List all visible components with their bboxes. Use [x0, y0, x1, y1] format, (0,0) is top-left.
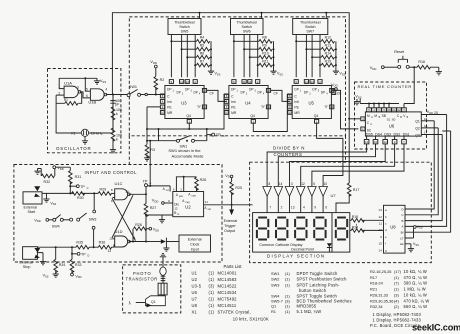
- svg-text:B: B: [174, 211, 176, 215]
- svg-text:R14: R14: [325, 52, 331, 56]
- svg-text:7: 7: [269, 206, 271, 210]
- pin 4 U6 left: [361, 117, 365, 121]
- svg-text:BI: BI: [401, 231, 404, 235]
- thumbwheel switch SW7: [293, 19, 328, 35]
- svg-text:SW2: SW2: [271, 277, 279, 282]
- pin 1 U6 left: [361, 127, 365, 131]
- svg-text:(1): (1): [394, 287, 399, 292]
- svg-text:TP: TP: [216, 133, 221, 137]
- svg-text:R9: R9: [262, 44, 267, 48]
- resistor R16: [417, 65, 430, 69]
- svg-text:(1): (1): [285, 282, 290, 287]
- svg-text:R36: R36: [99, 240, 106, 244]
- resistor 100 k upper: [111, 107, 115, 120]
- svg-text:(3): (3): [394, 292, 399, 297]
- svg-text:11: 11: [180, 80, 183, 84]
- dashed box OSCILLATOR section: [48, 69, 121, 153]
- ground stop box: [37, 253, 43, 259]
- ground VSS start: [46, 193, 48, 196]
- wire SW5 output 2: [181, 35, 183, 78]
- svg-text:TP: TP: [80, 185, 85, 189]
- svg-text:Q1: Q1: [151, 300, 156, 304]
- svg-text:5.1 MΩ, ¼W: 5.1 MΩ, ¼W: [297, 309, 322, 314]
- wire SW6 output 4: [257, 35, 259, 78]
- svg-text:DP: DP: [258, 90, 262, 94]
- svg-text:16: 16: [332, 91, 336, 95]
- svg-text:D: D: [87, 254, 89, 258]
- resistor R8: [234, 40, 259, 42]
- wire Q3 to U8 input: [405, 135, 442, 221]
- wire stop line: [37, 246, 114, 248]
- svg-text:11: 11: [305, 80, 308, 84]
- svg-text:SPST Pushbutton Switch: SPST Pushbutton Switch: [297, 277, 348, 282]
- pin 11 U4: [242, 80, 246, 84]
- test point TPA: [145, 187, 147, 195]
- wire to SW3 top throw: [93, 193, 95, 210]
- wire driver 5 to display: [311, 196, 313, 212]
- svg-text:MR: MR: [294, 111, 300, 115]
- wire cross coupling latch: [112, 195, 136, 240]
- pin 13 CF U5: [330, 89, 334, 93]
- wire driver 3 to display: [289, 196, 291, 212]
- svg-text:R2: R2: [160, 78, 165, 82]
- pin 13 CF U4: [266, 89, 270, 93]
- svg-text:2: 2: [281, 206, 283, 210]
- test point TPB: [207, 134, 212, 136]
- svg-text:(1): (1): [209, 303, 215, 308]
- svg-text:PE: PE: [294, 105, 299, 109]
- resistor R15: [320, 64, 321, 66]
- test point TPC: [70, 185, 76, 187]
- svg-text:(1): (1): [285, 271, 290, 276]
- svg-text:Switch: Switch: [179, 25, 190, 29]
- svg-text:"0": "0": [324, 105, 328, 109]
- svg-text:SW4: SW4: [52, 225, 60, 229]
- svg-text:Decimal Point: Decimal Point: [291, 248, 314, 252]
- svg-text:Trigger: Trigger: [224, 224, 236, 228]
- wire driver 2 to display: [277, 196, 279, 212]
- wire feedback loop: [56, 92, 82, 103]
- dashed box PHOTO TRANSISTOR: [123, 265, 181, 313]
- svg-text:Output: Output: [224, 229, 235, 233]
- svg-text:Inh: Inh: [294, 100, 299, 104]
- dashed box REAL TIME COUNTER: [355, 82, 427, 149]
- external clock input box: [166, 241, 179, 243]
- svg-text:12: 12: [174, 206, 178, 210]
- svg-text:DS4: DS4: [375, 132, 382, 136]
- ground: [110, 147, 116, 153]
- svg-text:U6: U6: [192, 290, 198, 295]
- op-amp gate U1A nor: [64, 86, 78, 98]
- svg-text:(1): (1): [209, 271, 215, 276]
- svg-text:13: 13: [107, 249, 111, 253]
- svg-text:10: 10: [374, 140, 378, 144]
- ground VSS ladder: [270, 69, 276, 75]
- ground R34 VSS: [53, 271, 59, 277]
- pin 22 U6 top: [397, 108, 402, 112]
- svg-text:R29: R29: [100, 188, 107, 192]
- wire SW5 output 3: [186, 35, 188, 78]
- svg-text:R31: R31: [75, 175, 82, 179]
- wire Q1 output U6: [421, 120, 434, 122]
- wire digit drive DS1: [312, 144, 404, 181]
- svg-text:Input: Input: [191, 248, 199, 252]
- pin 14 U3: [185, 80, 189, 84]
- svg-text:R21: R21: [370, 287, 377, 292]
- svg-text:14: 14: [248, 80, 252, 84]
- resistor R3 to ground: [146, 141, 148, 145]
- svg-text:12: 12: [379, 215, 383, 219]
- arrow external clock input: [161, 239, 166, 244]
- svg-text:DPDT Toggle Switch: DPDT Toggle Switch: [297, 271, 339, 276]
- wire SW7 output 4: [319, 35, 321, 78]
- svg-text:R3: R3: [150, 148, 155, 152]
- resistor R29: [98, 192, 111, 196]
- digit 5 segments: [336, 218, 347, 240]
- pin 11 U5: [304, 80, 308, 84]
- svg-text:DP: DP: [312, 88, 316, 92]
- pin 7 U6 bottom: [403, 136, 405, 139]
- wire digit drive DS2: [301, 144, 395, 181]
- switch SW1 pole A: [127, 94, 130, 97]
- svg-text:DIVIDE BY N: DIVIDE BY N: [273, 146, 305, 151]
- svg-text:SW1: SW1: [180, 145, 188, 149]
- svg-text:Stop: Stop: [23, 265, 31, 269]
- ground VSS ladder: [333, 69, 339, 75]
- svg-text:R25: R25: [235, 186, 242, 190]
- switch SW4: [53, 218, 56, 221]
- wire VDD pin 20 U6: [421, 114, 446, 116]
- svg-text:U5: U5: [309, 101, 315, 106]
- ground above photo transistor: [160, 254, 166, 268]
- svg-text:Inh: Inh: [167, 100, 172, 104]
- wire U3 Q4 to U4 clock: [189, 94, 229, 129]
- wire TPA node to counters riser and U2 A load: [147, 186, 170, 192]
- svg-text:R17: R17: [353, 188, 360, 192]
- svg-text:10: 10: [161, 111, 165, 115]
- power VDD pin 16 U5: [331, 88, 334, 90]
- svg-text:(1): (1): [394, 275, 399, 280]
- svg-text:Q4: Q4: [250, 114, 255, 118]
- svg-text:4: 4: [303, 206, 305, 210]
- svg-text:10: 10: [324, 182, 328, 186]
- pin 5 U4: [232, 80, 236, 84]
- wire: [112, 117, 114, 128]
- svg-text:PE: PE: [231, 105, 236, 109]
- resistor R34: [55, 247, 57, 259]
- test point TPD: [71, 253, 73, 255]
- svg-text:SW1: SW1: [129, 85, 137, 89]
- svg-text:R6: R6: [200, 52, 205, 56]
- svg-text:X1: X1: [192, 310, 198, 315]
- resistor R1 feedback: [65, 102, 78, 106]
- svg-text:Thumbwheel: Thumbwheel: [236, 20, 257, 24]
- svg-text:TRANSISTOR: TRANSISTOR: [126, 276, 158, 281]
- wire SW5 output 1: [170, 35, 172, 78]
- decoder IC U8 MC14511: [384, 205, 406, 253]
- wire digit drive DS3: [290, 144, 386, 181]
- svg-text:PE: PE: [167, 105, 172, 109]
- svg-text:Inh: Inh: [231, 100, 236, 104]
- pin 2 U4: [256, 80, 260, 84]
- buffer U7 driver 6: [319, 187, 328, 197]
- svg-text:12: 12: [203, 105, 207, 109]
- svg-text:6: 6: [325, 206, 327, 210]
- wire lambda input: [136, 302, 146, 304]
- buffer U7 driver 2: [274, 187, 283, 197]
- svg-text:Reset: Reset: [394, 50, 405, 54]
- svg-text:(7): (7): [394, 281, 399, 286]
- pin 13 CF U3: [202, 89, 206, 93]
- svg-text:R32,34: R32,34: [370, 304, 383, 309]
- wire external clock line: [146, 241, 161, 243]
- wire SW6 output 2: [243, 35, 245, 78]
- svg-text:REAL TIME COUNTER: REAL TIME COUNTER: [358, 84, 413, 89]
- svg-text:R8: R8: [262, 36, 267, 40]
- ground external clock: [163, 245, 169, 251]
- resistor R25: [230, 182, 234, 195]
- wire U5 Q4 down to display feed: [317, 124, 343, 163]
- pin 4 U6 top: [373, 103, 375, 105]
- power VDD U8: [405, 228, 414, 238]
- wire driver 4 to display: [300, 196, 302, 212]
- svg-text:External: External: [19, 260, 33, 264]
- svg-text:TP: TP: [81, 252, 86, 256]
- wire U2 top pins to R26: [176, 177, 196, 192]
- svg-text:"0": "0": [197, 105, 201, 109]
- pin 5 U3: [169, 80, 173, 84]
- svg-text:8: 8: [269, 182, 271, 186]
- external start input box: [23, 192, 42, 204]
- wire latch output down to clock line: [145, 215, 147, 242]
- svg-text:R30: R30: [77, 196, 84, 200]
- resistor R28 to VDD: [132, 229, 134, 242]
- pin 2 U3: [193, 80, 197, 84]
- wire driver 1 to display: [266, 196, 268, 212]
- svg-text:DP: DP: [294, 88, 298, 92]
- svg-text:DP: DP: [249, 88, 253, 92]
- wire U1A input stub: [56, 94, 64, 96]
- svg-text:DP: DP: [177, 90, 181, 94]
- pin 12 zero output U3: [202, 105, 206, 109]
- svg-text:17: 17: [424, 131, 428, 135]
- timer IC U2 MC14583: [173, 192, 204, 217]
- svg-text:Q2: Q2: [415, 127, 420, 131]
- svg-text:C: C: [87, 186, 89, 190]
- resistor R6: [187, 56, 196, 58]
- op-amp gate U1D nand: [115, 236, 128, 247]
- svg-text:MC14583: MC14583: [218, 277, 238, 282]
- wire U1B pin5 to VSS rail: [85, 78, 90, 91]
- svg-text:10: 10: [125, 190, 129, 194]
- wire drop to SW6 common: [261, 13, 263, 19]
- op-amp gate U1B nor: [90, 89, 104, 101]
- resistor R32: [41, 174, 54, 178]
- wire VDD20 rail down: [405, 115, 447, 227]
- crystal X1: [81, 129, 88, 136]
- svg-text:R33: R33: [75, 263, 82, 267]
- pin 26 U6 top: [388, 103, 390, 105]
- svg-text:R29,30,35,36: R29,30,35,36: [370, 298, 393, 303]
- wire SW2 reset to U6: [404, 67, 414, 108]
- resistor R26: [195, 177, 199, 190]
- digit 1 segments: [257, 218, 268, 240]
- svg-text:18: 18: [424, 124, 428, 128]
- resistor R30: [72, 192, 85, 196]
- svg-text:10 kΩ, ¼ W: 10 kΩ, ¼ W: [404, 292, 428, 297]
- wire SW1 pole B line: [147, 129, 207, 141]
- svg-text:14: 14: [379, 248, 383, 252]
- svg-text:11: 11: [379, 222, 382, 226]
- svg-text:out: out: [208, 208, 212, 211]
- left pin numbers U3: [160, 94, 164, 98]
- svg-text:S1: S1: [387, 118, 391, 122]
- diode stop input arrow: [34, 248, 40, 253]
- svg-text:R12: R12: [325, 36, 331, 40]
- wire to ground: [112, 138, 114, 147]
- svg-text:SW5: SW5: [181, 29, 189, 33]
- pin 5 U5: [294, 80, 298, 84]
- svg-text:(1): (1): [209, 297, 215, 302]
- buffer U7 driver 1: [263, 187, 272, 197]
- counter IC U5 MC14522: [292, 86, 331, 119]
- wire SW4 to SW3: [63, 219, 69, 221]
- svg-text:DS5: DS5: [366, 132, 373, 136]
- svg-text:Common Cathode Display: Common Cathode Display: [259, 243, 302, 247]
- external stop input box: [23, 247, 38, 260]
- ground VSS tie: [94, 78, 100, 84]
- pin 2 U5: [318, 80, 322, 84]
- svg-text:R18: R18: [352, 215, 358, 219]
- svg-text:OSCILLATOR: OSCILLATOR: [56, 146, 91, 151]
- svg-text:DS3: DS3: [384, 132, 391, 136]
- svg-text:SW1: SW1: [271, 271, 279, 276]
- svg-text:R16: R16: [418, 60, 425, 64]
- svg-text:DP: DP: [321, 90, 325, 94]
- svg-text:R5: R5: [200, 44, 205, 48]
- svg-text:(17): (17): [394, 269, 402, 274]
- svg-text:U7: U7: [331, 193, 337, 198]
- resistor R31: [69, 171, 73, 184]
- wire VSS tie rail: [59, 78, 97, 88]
- photo transistor barrel: [158, 283, 167, 295]
- pin 14 U6 bottom: [384, 136, 386, 139]
- wire R16 to ground: [430, 67, 439, 69]
- digit 2 segments: [276, 218, 287, 240]
- svg-text:U7: U7: [192, 297, 198, 302]
- svg-text:Thumbwheel: Thumbwheel: [300, 20, 321, 24]
- svg-text:U2: U2: [185, 204, 191, 209]
- svg-text:Clock: Clock: [190, 243, 199, 247]
- svg-text:470 Ω, ¼ W: 470 Ω, ¼ W: [404, 275, 428, 280]
- svg-text:R18-24: R18-24: [370, 281, 384, 286]
- svg-text:MR: MR: [231, 111, 237, 115]
- pin 3 U6 top: [402, 108, 407, 112]
- svg-text:U8: U8: [192, 303, 198, 308]
- pin 11 U6 bottom: [366, 136, 368, 139]
- resistor R2: [154, 77, 158, 90]
- svg-text:10 kΩ, ¼ W: 10 kΩ, ¼ W: [404, 269, 428, 274]
- svg-text:(1): (1): [209, 310, 215, 315]
- switch SW1 pole B: [177, 139, 180, 142]
- transistor Q1: [162, 294, 164, 297]
- buffer U7 driver 4: [296, 187, 305, 197]
- thumbwheel switch SW6: [231, 19, 264, 35]
- resistor R33: [71, 247, 73, 259]
- svg-text:External: External: [24, 205, 38, 209]
- resistor 100 k lower: [111, 128, 115, 141]
- pin 6 U6 top: [378, 103, 380, 105]
- svg-text:U1: U1: [192, 271, 198, 276]
- svg-text:13: 13: [267, 89, 271, 93]
- svg-text:U4: U4: [245, 101, 251, 106]
- op-amp gate U1C nand: [115, 189, 128, 200]
- svg-text:LT: LT: [400, 236, 403, 240]
- svg-text:U8: U8: [390, 225, 396, 230]
- resistor R12: [296, 40, 321, 42]
- svg-text:TP: TP: [143, 180, 148, 184]
- counter IC U3 MC14522: [165, 86, 204, 119]
- svg-text:(1): (1): [285, 277, 290, 282]
- svg-text:16: 16: [424, 117, 428, 121]
- resistor R7: [195, 64, 196, 66]
- wire SW7 output 2: [305, 35, 307, 78]
- display common cathode 5 digit: [253, 213, 350, 253]
- svg-text:k: k: [116, 137, 118, 141]
- resistor R24: [350, 229, 352, 231]
- svg-text:3: 3: [77, 86, 79, 90]
- wire cascade junction vertical: [158, 129, 160, 141]
- thumbwheel switch SW5: [168, 19, 201, 35]
- wire latch output rising to counters: [149, 141, 151, 186]
- svg-text:Q4: Q4: [186, 114, 191, 118]
- resistor R4: [171, 40, 196, 42]
- svg-text:390 Ω, ¼ W: 390 Ω, ¼ W: [404, 281, 428, 286]
- resistor R18: [350, 219, 352, 221]
- wire ladder rail SW6: [273, 41, 275, 68]
- resistor R35: [76, 245, 89, 249]
- svg-text:13: 13: [291, 206, 295, 210]
- svg-text:k: k: [116, 112, 118, 116]
- svg-text:10 kHz, SX1H10K: 10 kHz, SX1H10K: [233, 316, 269, 321]
- svg-text:14: 14: [186, 80, 190, 84]
- svg-text:DS1: DS1: [403, 132, 410, 136]
- svg-text:R34: R34: [59, 263, 66, 267]
- svg-text:DP: DP: [194, 90, 198, 94]
- svg-text:(1): (1): [209, 277, 215, 282]
- wire drop to SW7 common: [325, 13, 327, 19]
- svg-text:R24: R24: [352, 225, 358, 229]
- svg-text:MC14522: MC14522: [218, 284, 238, 289]
- svg-text:(1): (1): [209, 290, 215, 295]
- wire U1A output to U1B input: [80, 92, 91, 98]
- svg-text:(4): (4): [394, 298, 399, 303]
- svg-text:560 Ω, ¼ W: 560 Ω, ¼ W: [404, 304, 428, 309]
- svg-text:R35: R35: [76, 240, 83, 244]
- left pin numbers U4: [224, 94, 228, 98]
- wire oscillator output: [106, 94, 129, 96]
- svg-text:R7: R7: [200, 60, 205, 64]
- svg-text:(2): (2): [394, 304, 399, 309]
- wire cascade line left segment: [147, 128, 189, 130]
- resistor R27: [145, 194, 147, 203]
- resistor R36: [98, 245, 111, 249]
- svg-text:U1B: U1B: [88, 99, 96, 104]
- svg-text:R4: R4: [200, 36, 205, 40]
- wire SW6 output 3: [249, 35, 251, 78]
- svg-text:U6: U6: [389, 123, 395, 128]
- dashed box DISPLAY SECTION: [250, 162, 432, 262]
